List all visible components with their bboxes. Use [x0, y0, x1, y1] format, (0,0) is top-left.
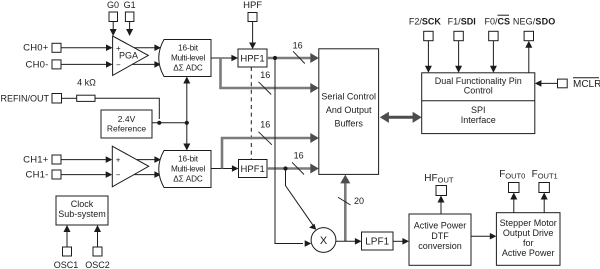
wire resistor to ref node	[95, 98, 159, 119]
svg-text:REFIN/OUT: REFIN/OUT	[1, 93, 50, 103]
pin NEG square	[524, 31, 533, 40]
pin CH1- square	[52, 170, 61, 179]
svg-text:Reference: Reference	[107, 124, 146, 134]
svg-text:SPI: SPI	[471, 105, 486, 115]
svg-text:G1: G1	[124, 0, 136, 10]
op-amp PGA	[113, 36, 149, 75]
svg-text:CH0-: CH0-	[26, 59, 49, 70]
Serial Control And Output Buffers box	[319, 49, 379, 175]
svg-text:16: 16	[260, 120, 270, 130]
svg-text:20: 20	[354, 196, 364, 206]
wire F2 to dual box	[425, 41, 432, 73]
svg-text:Dual Functionality Pin: Dual Functionality Pin	[435, 76, 522, 86]
svg-text:NEG/SDO: NEG/SDO	[513, 16, 556, 26]
pin REFIN/OUT square	[52, 94, 62, 104]
wire bias vertical to both ADCs	[183, 77, 190, 151]
pin FOUT1 square	[539, 183, 550, 193]
node dot bus1	[273, 56, 277, 60]
svg-text:FOUT0: FOUT0	[499, 169, 525, 181]
ADC U2: 16-bit Multi-level ΔΣ ADC (bottom)	[159, 151, 211, 188]
svg-text:G0: G0	[107, 0, 119, 10]
wire F1 to dual box	[455, 41, 462, 73]
wire multiplier to LPF1	[336, 238, 362, 245]
svg-text:OSC1: OSC1	[54, 260, 79, 269]
HPF1 box (bottom)	[239, 160, 268, 178]
svg-text:16: 16	[293, 41, 303, 51]
bus 20 multiplier to serial	[340, 175, 350, 242]
bus HPF1 to serial (16)	[267, 53, 319, 63]
Stepper Motor Output Drive box	[496, 213, 560, 266]
pin F1 square	[454, 31, 463, 40]
svg-text:And Output: And Output	[326, 105, 372, 115]
bus 20 slash	[338, 197, 351, 205]
bus3 into serial	[269, 133, 319, 143]
svg-text:LPF1: LPF1	[365, 237, 389, 248]
pin CH0+ label	[23, 43, 49, 54]
svg-text:16: 16	[260, 70, 270, 80]
svg-text:CH1+: CH1+	[23, 154, 49, 165]
Dual Functionality Pin Control / SPI Interface box	[422, 73, 535, 134]
svg-text:Sub-system: Sub-system	[58, 209, 106, 219]
pin REFIN/OUT label	[1, 93, 50, 103]
svg-text:PGA: PGA	[119, 51, 138, 61]
svg-text:+: +	[116, 156, 121, 165]
wire LPF1 to DTF	[393, 238, 409, 245]
pin NEG/SDO label	[513, 16, 556, 26]
wire REFIN to resistor	[62, 97, 77, 99]
pin OSC1 square	[63, 247, 72, 256]
wire ADC1 to HPF1	[211, 55, 238, 62]
svg-text:X: X	[320, 235, 328, 247]
svg-text:F0/CS: F0/CS	[485, 16, 511, 26]
bus2 width label 16	[260, 70, 270, 80]
pin CH0+ square	[52, 43, 61, 52]
svg-text:Multi-level: Multi-level	[171, 54, 206, 63]
bus2 into serial	[269, 83, 319, 93]
wire stepper to FOUT1	[541, 193, 548, 213]
Active Power DTF conversion box	[409, 214, 471, 265]
svg-text:HPF1: HPF1	[240, 54, 264, 65]
wire DTF to stepper	[471, 233, 496, 240]
svg-text:16-bit: 16-bit	[178, 44, 199, 53]
bus2 slash	[259, 82, 272, 95]
wire F0 to dual box	[490, 41, 497, 73]
wire CH1- to amp	[61, 171, 112, 178]
wire G0 to PGA	[110, 22, 117, 37]
bus4 slash	[292, 162, 304, 174]
svg-text:Buffers: Buffers	[335, 119, 364, 129]
svg-text:FOUT1: FOUT1	[532, 169, 558, 181]
pin F2/SCK label	[409, 16, 442, 26]
wire CH0+ to PGA	[61, 44, 113, 51]
svg-text:HFOUT: HFOUT	[424, 173, 454, 185]
arrow into multiplier (left)	[305, 240, 312, 247]
pin HFOUT square	[436, 186, 447, 196]
svg-text:−: −	[116, 61, 121, 70]
svg-text:CH1-: CH1-	[26, 169, 49, 180]
multiplier X	[311, 228, 336, 253]
pin CH0- label	[26, 59, 49, 70]
wire PGA to ADC1 (-)	[132, 61, 161, 68]
svg-text:HPF: HPF	[243, 0, 262, 11]
svg-text:Output Drive: Output Drive	[503, 228, 554, 238]
wire voltage tap to multiplier	[275, 60, 303, 244]
HPF1 box (top)	[238, 49, 267, 67]
wire dual box to NEG (output up)	[525, 41, 532, 73]
wire CH0- to PGA	[61, 61, 113, 68]
pin MCLR square	[558, 79, 568, 88]
pin FOUT0 label	[499, 169, 525, 181]
wire OSC1 to clock	[64, 225, 71, 247]
bus3 slash	[259, 132, 272, 145]
wire ADC2 to HPF1b	[211, 165, 239, 172]
pin MCLR label (overline)	[573, 78, 600, 90]
svg-text:HPF1: HPF1	[241, 164, 265, 175]
pin FOUT1 label	[532, 169, 558, 181]
pin G1 square	[125, 12, 133, 22]
pin FOUT0 square	[509, 183, 520, 193]
pin F0 square	[489, 31, 498, 40]
pin CH1- label	[26, 169, 49, 180]
svg-text:MCLR: MCLR	[573, 79, 600, 90]
bus HPF1b to serial (16)	[267, 164, 319, 174]
op-amp A2 (CH1)	[112, 146, 148, 187]
wire HPF to HPF1	[249, 22, 256, 50]
svg-text:Stepper Motor: Stepper Motor	[500, 218, 557, 228]
svg-text:Multi-level: Multi-level	[171, 165, 206, 174]
node junction dot B	[185, 121, 189, 125]
wire reference to ADC bias line	[152, 122, 187, 124]
pin CH0- square	[52, 60, 61, 69]
bus serial to SPI (bidirectional)	[380, 112, 422, 123]
pin F1/SDI label	[448, 16, 476, 26]
pin 4kΩ label	[77, 78, 96, 88]
svg-text:OSC2: OSC2	[85, 260, 110, 269]
svg-text:Clock: Clock	[71, 199, 94, 209]
node dot bus4	[283, 166, 287, 170]
dashed control line between HPF1 blocks	[250, 67, 252, 160]
LPF1 box	[362, 232, 394, 250]
svg-text:Serial Control: Serial Control	[321, 92, 376, 102]
pin OSC2 square	[93, 247, 102, 256]
pin G0 square	[109, 12, 118, 22]
svg-text:ΔΣ ADC: ΔΣ ADC	[173, 175, 203, 184]
wire amp to ADC2 (+)	[137, 156, 161, 163]
2.4V Reference box	[101, 110, 152, 138]
resistor 4kΩ	[77, 95, 95, 101]
svg-text:F2/SCK: F2/SCK	[409, 16, 442, 26]
svg-text:ΔΣ ADC: ΔΣ ADC	[173, 64, 203, 73]
svg-text:Active Power: Active Power	[502, 248, 555, 258]
bus1 width label 16	[293, 41, 303, 51]
wire CH1+ to amp	[61, 156, 112, 163]
wire G1 to PGA	[126, 22, 133, 37]
pin OSC1 label	[54, 260, 79, 269]
bus4 width label 16	[294, 151, 304, 161]
svg-text:−: −	[116, 171, 121, 180]
svg-text:16: 16	[294, 151, 304, 161]
bus 20 label	[354, 196, 364, 206]
wire current tap to multiplier (diagonal)	[286, 170, 317, 230]
pin CH1+ label	[23, 154, 49, 165]
svg-text:Interface: Interface	[461, 115, 496, 125]
wire MCLR to SPI box	[535, 80, 558, 87]
svg-text:Active Power: Active Power	[414, 221, 467, 231]
bus3 width label 16	[260, 120, 270, 130]
wire ADC2 bypass branch	[222, 138, 270, 169]
svg-text:for: for	[523, 238, 534, 248]
svg-text:F1/SDI: F1/SDI	[448, 16, 476, 26]
pin OSC2 label	[85, 260, 110, 269]
svg-text:2.4V: 2.4V	[118, 114, 136, 124]
wire stepper to FOUT0	[510, 193, 517, 213]
pin G0 label	[107, 0, 119, 10]
svg-text:16-bit: 16-bit	[178, 155, 199, 164]
ADC U1: 16-bit Multi-level ΔΣ ADC (top)	[159, 40, 211, 77]
pin HPF square	[248, 13, 257, 22]
wire amp to ADC2 (-)	[134, 171, 161, 178]
pin HPF label	[243, 0, 262, 11]
bus1 slash	[293, 51, 305, 63]
pin F0/CS label (CS overline)	[485, 15, 511, 26]
pin CH1+ square	[52, 155, 61, 164]
svg-text:Control: Control	[464, 86, 493, 96]
wire DTF to HFOUT	[438, 196, 445, 215]
svg-text:4 kΩ: 4 kΩ	[77, 78, 96, 88]
svg-text:conversion: conversion	[418, 241, 462, 251]
node junction dot A	[157, 121, 161, 125]
wire ADC1 bypass branch	[221, 58, 271, 88]
Clock Sub-system box	[56, 196, 108, 225]
pin HFOUT label	[424, 173, 454, 185]
svg-text:DTF: DTF	[431, 231, 449, 241]
pin G1 label	[124, 0, 136, 10]
pin F2 square	[424, 31, 433, 40]
svg-text:CH0+: CH0+	[23, 43, 49, 54]
wire OSC2 to clock	[94, 225, 101, 247]
wire PGA to ADC1 (+)	[134, 44, 161, 51]
